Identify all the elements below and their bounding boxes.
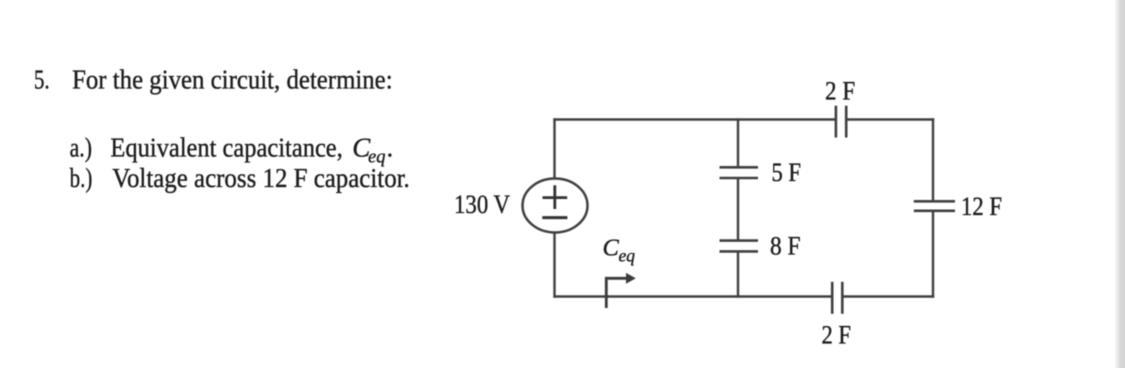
- capacitor 12F plates: [914, 200, 955, 203]
- svg-text:130 V: 130 V: [454, 190, 510, 219]
- svg-text:.: .: [387, 133, 394, 163]
- svg-text:12 F: 12 F: [961, 192, 1002, 221]
- voltage source V1 minus sign: [542, 216, 567, 219]
- svg-text:C: C: [603, 235, 620, 262]
- wire: right rail lower segment (12F capacitor to bottom-right corner): [932, 211, 934, 298]
- capacitor 5F plates: [720, 166, 759, 169]
- wire: middle branch upper segment (top node to 5F capacitor): [737, 118, 739, 167]
- capacitor C-bottom 2F plates: [831, 282, 834, 314]
- svg-text:5.: 5.: [34, 65, 50, 95]
- svg-text:b.): b.): [70, 163, 93, 193]
- wire: middle branch lower segment (8F capacitor to bottom node): [737, 251, 739, 297]
- Ceq reference arrow (bent arrow into circuit): [606, 278, 627, 308]
- wire: top-right horizontal run from top 2F capacitor to right rail: [846, 118, 934, 120]
- svg-text:8 F: 8 F: [770, 232, 801, 261]
- wire: middle branch mid segment (5F capacitor to 8F capacitor): [737, 178, 739, 241]
- svg-text:Voltage across 12 F capacitor.: Voltage across 12 F capacitor.: [112, 163, 410, 193]
- svg-text:a.): a.): [70, 133, 92, 163]
- svg-text:eq: eq: [619, 246, 636, 266]
- voltage source V1 plus sign: [543, 196, 568, 199]
- svg-text:5 F: 5 F: [772, 158, 802, 187]
- svg-text:Equivalent capacitance,: Equivalent capacitance,: [110, 133, 342, 163]
- wire: left rail upper segment (source top to top-left corner): [553, 118, 555, 179]
- scan shadow band at right edge: [1114, 0, 1125, 368]
- wire: left rail lower segment (source bottom to bottom-left corner): [553, 232, 555, 298]
- wire: bottom-right horizontal run from bottom 2F capacitor to right rail: [842, 295, 934, 297]
- capacitor 8F plates: [720, 239, 759, 242]
- svg-text:For the given circuit, determi: For the given circuit, determine:: [72, 65, 393, 95]
- wire: top-left horizontal run from left rail to top 2F capacitor: [553, 118, 835, 120]
- svg-text:2 F: 2 F: [825, 77, 855, 106]
- wire: bottom-left horizontal run from left rail to bottom 2F capacitor: [553, 295, 832, 297]
- voltage source V1 circle: [523, 179, 588, 233]
- svg-text:2 F: 2 F: [822, 320, 852, 349]
- wire: right rail upper segment (top-right corner to 12F capacitor): [932, 118, 934, 201]
- capacitor C-top 2F plates: [835, 106, 838, 138]
